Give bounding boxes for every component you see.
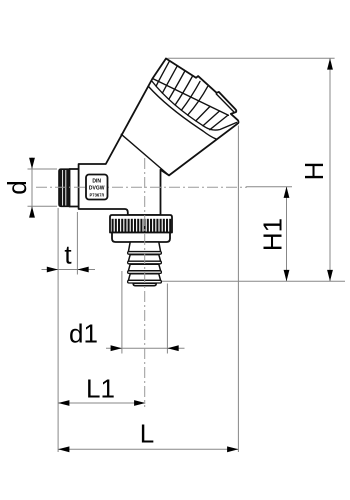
dimension d1 arrow right [167, 345, 178, 351]
extension line bottom reference (y=281.2) [157, 280, 345, 282]
skirt bottom-left edge [121, 134, 169, 175]
dimension t arrow left [47, 267, 58, 273]
dimension L1 arrow left [58, 400, 69, 406]
dimension L1 line [58, 402, 145, 404]
spigot smooth section [70, 169, 79, 207]
hose barb tip [133, 283, 156, 285]
dimension L arrow right [227, 446, 238, 452]
extension line top of wheel (H at y=58.3) [168, 57, 335, 59]
extension line d top (y=169) [28, 168, 58, 170]
dimension d arrow top [29, 158, 35, 169]
hose barb lip 1 [128, 252, 162, 255]
dimension L line [58, 448, 238, 450]
dimension H1 line [286, 187, 288, 282]
dimension H1 extension top [246, 186, 292, 188]
hose barb lip 3 [128, 271, 162, 274]
dimension H1 arrow bottom [284, 270, 290, 281]
hose barb rib 2 [128, 255, 160, 262]
svg-text:H: H [299, 162, 329, 181]
DIN DVGW approval box [86, 175, 108, 200]
svg-text:P7367/I: P7367/I [89, 193, 103, 198]
spigot thread block [59, 169, 70, 207]
svg-text:DVGW: DVGW [89, 186, 105, 192]
hose barb rib 3 [128, 264, 160, 271]
centerline horizontal (inlet axis) [36, 186, 247, 188]
hose barb rib 1 [128, 242, 160, 252]
extension line d1 right (x=167.4) [166, 284, 168, 354]
svg-text:L1: L1 [86, 374, 115, 404]
extension line left (t/L1/L at x=58) [57, 208, 59, 452]
extension line body left edge (t at x=77.4) [76, 212, 78, 275]
valve body outline with handwheel silhouette [79, 59, 239, 216]
collar lower line [149, 87, 217, 140]
dimension H1 arrow top [284, 187, 290, 198]
dimension H arrow bottom [327, 270, 333, 281]
union nut skirt [112, 233, 170, 243]
dimension t line [42, 269, 96, 271]
dimension L arrow left [58, 446, 69, 452]
dimension d1 line [106, 347, 185, 349]
dimension H arrow top [327, 58, 333, 69]
hose barb lip 2 [128, 261, 162, 264]
hose barb rib 4 [128, 274, 160, 281]
union nut knurl bars [112, 219, 172, 233]
knurl strokes on wheel face [156, 62, 169, 87]
extension line d bottom (y=206.3) [28, 205, 58, 207]
extension line d1 left (x=121.9) [121, 271, 123, 354]
dimension d arrow bottom [29, 206, 35, 217]
svg-text:t: t [64, 240, 72, 270]
hose barb lip 4 [128, 280, 162, 283]
dimension d line [31, 158, 33, 218]
union nut knurled band [110, 215, 172, 233]
svg-text:H1: H1 [258, 218, 288, 251]
svg-text:L: L [140, 419, 154, 449]
dimension t arrow right [77, 267, 88, 273]
band inner edge [153, 79, 229, 116]
svg-text:DIN: DIN [92, 179, 101, 185]
extension line wheel right (L at x=238.4) [237, 126, 239, 453]
dimension d1 arrow left [111, 345, 122, 351]
centerline vertical (outlet axis) [144, 158, 146, 407]
svg-text:d1: d1 [69, 319, 98, 349]
dimension L1 arrow right [134, 400, 145, 406]
handwheel snap tab inner edge [216, 94, 233, 112]
svg-text:d: d [2, 180, 32, 194]
collar upper line [152, 81, 237, 130]
dimension H line [329, 58, 331, 281]
spigot thread slits [62, 170, 64, 206]
